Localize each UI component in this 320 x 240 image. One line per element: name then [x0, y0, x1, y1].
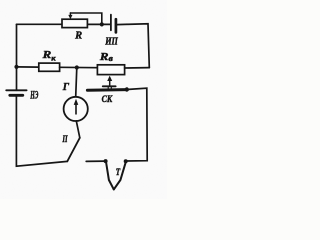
svg-text:НЭ: НЭ — [30, 90, 39, 102]
node junction dot SK right — [125, 87, 129, 91]
battery IP long plate — [110, 15, 112, 31]
wire top-left horizontal — [17, 23, 63, 25]
wire below galvanometer — [76, 121, 80, 138]
resistor R (rheostat box) — [62, 19, 87, 27]
node junction dot loop/top wire — [100, 22, 104, 26]
wire row2 left segment — [17, 66, 39, 68]
wire galvanometer branch down — [76, 68, 77, 97]
svg-text:П: П — [62, 135, 68, 145]
battery NE long plate — [6, 89, 26, 91]
battery IP short plate — [115, 19, 118, 32]
wire left side upper (top corner down to NE cell) — [16, 24, 18, 90]
slider arrow of Rd — [109, 80, 111, 86]
battery NE short plate — [10, 94, 23, 97]
thermocouple T left leg — [106, 161, 114, 189]
node junction dot thermocouple left — [104, 159, 108, 163]
node junction dot left wire / row2 — [14, 65, 18, 69]
svg-text:СК: СК — [102, 95, 113, 105]
resistor Rd box — [97, 65, 124, 75]
svg-text:ИП: ИП — [104, 36, 118, 47]
wire left side lower and bottom to switch contact — [16, 95, 67, 166]
sliding contact jaws — [108, 87, 111, 90]
wire thermocouple left contact segment — [86, 160, 105, 162]
wire SK to right corner and down — [126, 88, 147, 161]
svg-text:Г: Г — [62, 82, 70, 93]
wire rheostat to battery — [87, 23, 110, 25]
node junction dot thermocouple right — [124, 159, 128, 163]
sliding contact bar — [103, 85, 116, 87]
arrow inside galvanometer — [75, 104, 77, 114]
wire battery to top-right corner and down right side — [117, 24, 150, 68]
svg-text:R: R — [74, 31, 82, 42]
node junction dot galvanometer branch — [75, 65, 79, 69]
slide wire SK thick line — [87, 88, 126, 92]
svg-text:Rв: Rв — [99, 52, 114, 63]
wire row2 right segment — [125, 67, 150, 69]
resistor Rk box — [39, 63, 60, 71]
galvanometer G circle — [64, 97, 88, 121]
switch P blade — [67, 138, 80, 162]
wire row2 middle segment — [60, 66, 98, 68]
thermocouple T right leg — [114, 161, 126, 189]
slider arrow of R — [69, 13, 71, 16]
wire slider loop of R — [70, 13, 101, 24]
